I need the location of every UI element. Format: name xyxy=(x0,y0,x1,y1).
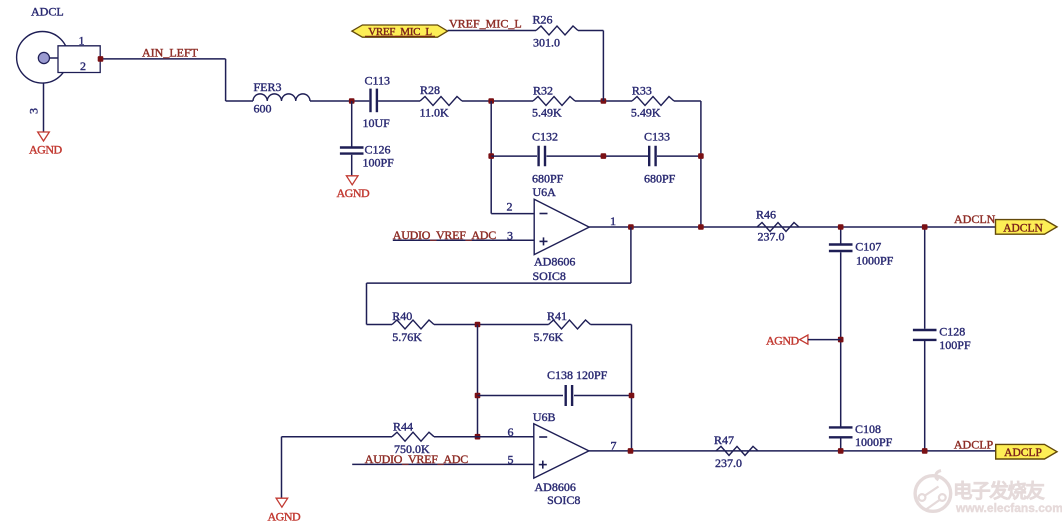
svg-text:6: 6 xyxy=(508,425,514,439)
svg-text:C133: C133 xyxy=(644,130,670,144)
svg-text:100PF: 100PF xyxy=(363,155,395,169)
svg-text:AUDIO_VREF_ADC: AUDIO_VREF_ADC xyxy=(365,452,468,466)
svg-text:301.0: 301.0 xyxy=(533,36,560,50)
svg-text:1: 1 xyxy=(610,214,616,228)
svg-text:2: 2 xyxy=(80,59,86,73)
svg-text:5: 5 xyxy=(508,452,514,466)
svg-text:10UF: 10UF xyxy=(363,116,391,130)
svg-text:SOIC8: SOIC8 xyxy=(547,493,580,507)
svg-text:ADCLP: ADCLP xyxy=(1004,447,1042,459)
svg-text:AGND: AGND xyxy=(766,333,799,347)
svg-text:C128: C128 xyxy=(939,325,965,339)
svg-text:AGND: AGND xyxy=(268,510,301,524)
svg-text:ADCLN: ADCLN xyxy=(954,212,996,226)
svg-text:ADCLP: ADCLP xyxy=(954,438,994,452)
svg-text:237.0: 237.0 xyxy=(758,230,785,244)
svg-text:C113: C113 xyxy=(365,74,391,88)
svg-text:R40: R40 xyxy=(392,309,412,323)
svg-text:680PF: 680PF xyxy=(532,171,564,185)
svg-text:U6A: U6A xyxy=(533,185,557,199)
svg-text:ADCLN: ADCLN xyxy=(1003,222,1043,234)
svg-text:C138 120PF: C138 120PF xyxy=(547,368,608,382)
svg-text:5.76K: 5.76K xyxy=(392,330,422,344)
svg-text:VREF_MIC_L: VREF_MIC_L xyxy=(449,17,522,31)
svg-text:680PF: 680PF xyxy=(644,171,676,185)
svg-text:5.76K: 5.76K xyxy=(534,330,564,344)
svg-text:AGND: AGND xyxy=(29,142,62,156)
svg-text:5.49K: 5.49K xyxy=(532,106,562,120)
svg-text:SOIC8: SOIC8 xyxy=(533,269,566,283)
svg-text:R41: R41 xyxy=(547,309,567,323)
svg-text:www.elecfans.com: www.elecfans.com xyxy=(955,501,1062,515)
svg-text:AGND: AGND xyxy=(337,186,370,200)
svg-text:C132: C132 xyxy=(532,130,558,144)
svg-text:R46: R46 xyxy=(756,208,776,222)
svg-text:AIN_LEFT: AIN_LEFT xyxy=(142,46,199,60)
svg-text:AD8606: AD8606 xyxy=(534,255,575,269)
svg-text:R32: R32 xyxy=(533,83,553,97)
svg-text:2: 2 xyxy=(507,200,513,214)
svg-text:600: 600 xyxy=(254,102,272,116)
svg-text:C107: C107 xyxy=(855,240,881,254)
svg-text:3: 3 xyxy=(27,108,41,114)
svg-text:FER3: FER3 xyxy=(254,80,282,94)
svg-text:R47: R47 xyxy=(714,433,734,447)
svg-text:100PF: 100PF xyxy=(939,338,971,352)
svg-text:3: 3 xyxy=(507,228,513,242)
svg-text:R28: R28 xyxy=(420,83,440,97)
svg-text:5.49K: 5.49K xyxy=(631,106,661,120)
svg-text:ADCL: ADCL xyxy=(31,5,64,19)
svg-text:11.0K: 11.0K xyxy=(420,106,450,120)
svg-text:R33: R33 xyxy=(632,83,652,97)
svg-text:1: 1 xyxy=(79,33,85,47)
svg-text:7: 7 xyxy=(611,439,617,453)
svg-text:R44: R44 xyxy=(393,420,413,434)
svg-text:R26: R26 xyxy=(533,13,553,27)
svg-text:C126: C126 xyxy=(365,142,391,156)
svg-text:AUDIO_VREF_ADC: AUDIO_VREF_ADC xyxy=(393,228,496,242)
svg-text:1000PF: 1000PF xyxy=(855,435,893,449)
svg-text:237.0: 237.0 xyxy=(715,456,742,470)
svg-text:U6B: U6B xyxy=(533,410,556,424)
svg-text:电子发烧友: 电子发烧友 xyxy=(953,480,1045,503)
svg-text:1000PF: 1000PF xyxy=(856,254,894,268)
svg-text:AD8606: AD8606 xyxy=(535,480,576,494)
